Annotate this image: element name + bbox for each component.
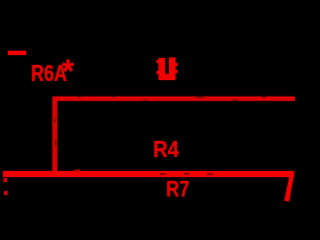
wire: [284, 172, 294, 202]
wire: [3, 171, 293, 177]
svg-text:R7: R7: [166, 177, 190, 202]
svg-text:R4: R4: [153, 136, 179, 162]
wire: [8, 51, 26, 55]
wire: [54, 97, 266, 176]
wire: [53, 97, 295, 101]
designator U: [157, 58, 178, 81]
wire: [53, 97, 58, 177]
svg-text:*: *: [62, 53, 74, 90]
node A: [4, 178, 8, 182]
node B: [4, 191, 8, 195]
